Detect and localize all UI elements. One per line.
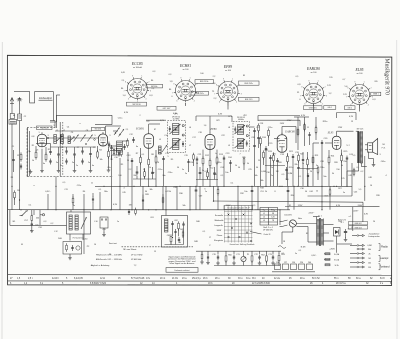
svg-text:11: 11 [307,127,309,129]
wire antenna down left [11,105,13,210]
power transformer top tick [313,217,320,219]
svg-text:460kHz: 460kHz [238,119,244,121]
svg-text:ECH81: ECH81 [135,127,145,130]
svg-text:a 1: a 1 [349,216,352,218]
svg-text:6,3V: 6,3V [173,113,178,115]
svg-text:6,3V: 6,3V [218,114,223,116]
svg-text:L2: L2 [63,130,65,132]
label box 5M 30/31 [92,127,105,130]
pot row bus [214,250,282,252]
value labels band2 [99,154,359,177]
voltage selector plugs [272,262,315,272]
terminal labels [367,233,390,269]
rectifier output wires [324,236,352,259]
tuner trimmer arrow 2 [81,135,86,142]
switch matrix header [227,207,249,210]
mid cluster labels [109,242,137,251]
svg-text:25: 25 [127,160,129,162]
svg-text:C58: C58 [38,227,41,229]
ECH81 second row parts [133,166,156,179]
svg-text:R1: R1 [11,177,13,179]
svg-text:C31: C31 [272,154,275,156]
svg-text:6,8: 6,8 [32,136,35,138]
tuner coil 1 [54,135,57,144]
svg-text:GSM 1: GSM 1 [373,94,379,96]
ECH81 component wires [132,124,164,186]
socket pin voltage labels ECH81 [169,81,174,98]
below transformer labels [359,171,387,197]
svg-text:220V~: 220V~ [353,211,359,213]
svg-text:Punkt 16: Punkt 16 [264,233,271,236]
svg-text:8: 8 [347,87,348,89]
svg-text:240: 240 [308,262,311,264]
left coupling grounds [30,229,34,233]
svg-text:2n: 2n [76,165,78,167]
svg-text:70: 70 [157,162,159,164]
bus line y206 right [285,206,380,208]
svg-text:Ferritantenne: Ferritantenne [73,236,84,239]
EABC80 tiny labels [268,151,300,175]
svg-text:78: 78 [272,220,274,222]
label above output transformer [357,129,363,131]
svg-text:7: 7 [346,96,347,98]
socket pin voltage labels EF89 [212,83,217,100]
svg-text:C59: C59 [102,229,105,231]
svg-text:BSD 29/1c: BSD 29/1c [195,93,204,95]
svg-text:87: 87 [154,129,156,131]
svg-text:R22: R22 [300,154,303,156]
measurement note box [166,268,198,273]
svg-text:L3: L3 [263,220,265,222]
svg-text:C14: C14 [164,135,167,137]
svg-text:Sp.: Sp. [263,210,266,212]
label EL95 circuit [327,131,334,134]
svg-text:10k: 10k [99,159,102,161]
svg-text:5k: 5k [169,191,171,193]
terminal arrows column [356,234,365,268]
svg-text:15: 15 [154,251,156,253]
svg-text:8,2x0,05: 8,2x0,05 [74,278,84,280]
svg-text:12: 12 [17,155,19,157]
svg-text:EF89: EF89 [223,65,232,69]
mixer trimmer arrow 2 [119,129,125,137]
schematic border frame [7,55,391,285]
svg-text:2n: 2n [72,162,74,164]
svg-text:0,2: 0,2 [361,171,364,173]
svg-text:33 o: 33 o [238,278,243,280]
socket pin voltage labels EABC80 [297,84,332,101]
svg-text:C44: C44 [309,191,312,193]
svg-text:C62: C62 [174,220,177,222]
svg-text:Drucktastenschalter 7S 27: Drucktastenschalter 7S 27 [227,207,249,210]
svg-text:Kurzwelle: Kurzwelle [215,214,223,217]
socket surround labels [121,71,377,83]
svg-text:6,3V: 6,3V [336,205,341,207]
svg-text:L5: L5 [159,139,161,141]
svg-text:34 e: 34 e [246,278,251,280]
svg-text:7: 7 [239,154,240,156]
svg-text:0,1: 0,1 [282,253,285,255]
junction dots on buses [20,186,334,211]
ferrite label [73,236,84,239]
left cluster labels [24,218,40,227]
svg-text:C45: C45 [122,192,125,194]
svg-text:L11: L11 [164,227,167,229]
ratio det extra parts [165,229,185,245]
svg-text:C11: C11 [64,189,67,191]
svg-text:5,5: 5,5 [353,155,356,157]
near-bus parts row [72,193,164,210]
svg-text:2k: 2k [265,191,267,193]
socket to circuit tiny texts [124,112,354,122]
svg-text:2k: 2k [369,253,371,255]
svg-text:100: 100 [200,73,203,75]
svg-text:R26: R26 [334,162,337,164]
speaker labels [382,144,386,150]
svg-text:1n: 1n [271,167,273,169]
filter cap label [348,229,353,231]
svg-text:26 b: 26 b [203,278,208,280]
svg-text:1k: 1k [149,167,151,169]
socket label box EABC80 below 2 [324,106,336,110]
svg-text:30k: 30k [368,249,371,251]
svg-text:64 8: 64 8 [380,278,385,280]
svg-text:12 kt: 12 kt [100,277,105,280]
lower-left grounds [68,256,72,260]
switch matrix header band [224,206,253,210]
svg-text:Wdg: Wdg [271,210,275,212]
lower-left box [63,242,82,255]
svg-text:0,3: 0,3 [147,121,150,123]
right mid tiny labels [260,123,357,194]
svg-text:7: 7 [172,92,173,94]
svg-text:an 100: an 100 [357,73,363,75]
tuner ground symbols [29,168,111,174]
svg-text:M1: M1 [13,221,16,223]
psu tiny labels [298,217,335,257]
power transformer winding hatch [317,220,323,245]
detector tiny labels [256,127,273,173]
svg-text:0,1: 0,1 [203,231,206,233]
svg-text:3: 3 [241,93,242,95]
pot row grounds [216,261,275,265]
IF2 coil lower [170,139,185,150]
svg-text:C25: C25 [248,169,251,171]
UKW tuner enclosure (dashed) [27,128,113,177]
svg-text:C36: C36 [300,188,303,190]
svg-text:R6: R6 [83,191,85,193]
svg-text:C73: C73 [268,254,271,256]
svg-text:C8: C8 [86,130,88,132]
tuner coil 3 [68,136,70,144]
svg-text:C64: C64 [338,221,341,223]
svg-text:110/220V: 110/220V [284,215,292,217]
svg-text:R14: R14 [228,157,231,159]
svg-text:Tonband: Tonband [380,265,390,269]
output transformer primary winding [358,132,360,164]
label EABC80 circuit [284,131,295,134]
svg-text:1: 1 [141,76,142,78]
svg-text:195: 195 [329,77,332,79]
svg-text:Phono: Phono [217,235,222,237]
svg-text:14: 14 [94,244,96,246]
svg-text:0,3M: 0,3M [288,173,293,175]
svg-text:BSD 29/3c: BSD 29/3c [244,83,253,85]
svg-text:0,1: 0,1 [231,183,234,185]
detector components [253,128,269,152]
svg-text:18 b: 18 b [208,283,213,285]
svg-text:C24: C24 [220,167,223,169]
components under bus [195,186,331,209]
svg-text:L1: L1 [56,130,58,132]
svg-text:EF89: EF89 [210,128,218,131]
svg-text:30n: 30n [162,175,165,177]
svg-text:30k: 30k [149,189,152,191]
EF89 lower components [196,156,225,168]
svg-text:5k: 5k [341,165,343,167]
svg-text:C20: C20 [173,187,176,189]
bus line y200 right [214,186,364,206]
svg-text:55 n: 55 n [334,278,339,280]
svg-text:ZF2: ZF2 [243,115,246,117]
volume potentiometer [241,256,246,261]
heater drop wires [34,192,100,225]
left coupling parts [31,210,33,229]
svg-text:L10: L10 [94,221,97,223]
rectifier [334,228,341,237]
coupling cap to EL95 [321,140,323,146]
socket label box ECC85 right [146,84,163,88]
svg-text:8: 8 [173,83,174,85]
pot row parts [217,253,280,263]
svg-text:Lautspr.: Lautspr. [380,256,389,260]
svg-text:8: 8 [125,81,126,83]
tuner resistor 4 [108,149,110,158]
svg-text:0,5: 0,5 [253,205,256,207]
speaker [365,139,378,155]
tuner small circles [47,137,95,145]
svg-text:R5: R5 [121,164,123,166]
svg-text:EL95: EL95 [327,131,334,134]
svg-text:Musikgerät 970: Musikgerät 970 [384,59,390,96]
grid-side parts [196,251,214,264]
label 110V [284,215,292,217]
socket label box EF89 right 2 [239,97,260,101]
svg-text:2n: 2n [56,162,58,164]
svg-text:SM 59/4c: SM 59/4c [151,86,158,88]
svg-text:L8: L8 [228,127,230,129]
svg-text:20: 20 [373,221,375,223]
svg-text:10n: 10n [225,172,228,174]
tuner resistor 1 [35,150,37,159]
coil table text [263,210,275,223]
measurement note paragraph [168,255,196,265]
svg-text:28 31 5 a: 28 31 5 a [336,283,346,285]
svg-text:0,1: 0,1 [357,167,360,169]
ferrite antenna box [67,212,91,234]
svg-text:36 t: 36 t [252,277,256,280]
svg-text:C26: C26 [251,137,254,139]
svg-text:UKW: UKW [217,230,222,232]
terminal feed wires [347,171,357,267]
svg-text:220V~: 220V~ [308,213,315,215]
svg-text:3: 3 [326,95,327,97]
svg-text:C17: C17 [192,137,195,139]
bottom area extra labels [21,205,322,255]
svg-text:ECC85: ECC85 [131,62,143,66]
svg-text:an 100: an 100 [225,70,231,72]
svg-text:1n: 1n [91,183,93,185]
ratio detector box [162,216,188,248]
svg-text:Klangtaste: Klangtaste [214,239,223,242]
svg-text:2n: 2n [60,165,62,167]
svg-text:GSt 2: GSt 2 [347,106,352,109]
svg-text:30: 30 [145,191,147,193]
svg-text:60 a: 60 a [356,278,361,280]
IF2 label above [172,117,180,121]
parts-list strip upper line [8,274,392,277]
svg-text:P 21: P 21 [382,147,386,149]
coil table box [260,208,278,226]
svg-text:R9: R9 [171,159,173,161]
svg-text:2n: 2n [271,175,273,177]
svg-text:0,2: 0,2 [51,223,54,225]
svg-text:C72: C72 [254,254,257,256]
IF stage link verticals [120,152,128,186]
svg-text:48 a: 48 a [300,278,305,280]
grid annotation [250,232,270,237]
svg-text:C1: C1 [12,146,14,148]
svg-text:8: 8 [301,86,302,88]
svg-text:205: 205 [374,81,377,83]
svg-text:85: 85 [243,75,245,77]
svg-text:100: 100 [118,175,121,177]
ratio det coil [165,219,168,232]
switch matrix crosses [228,214,252,242]
svg-text:10,7MHz: 10,7MHz [173,119,180,121]
EABC80 grid network [273,153,295,164]
EABC80 link wires [265,166,318,187]
svg-text:R30: R30 [179,193,182,195]
svg-text:BV 61/5: BV 61/5 [357,129,363,131]
svg-text:C70: C70 [212,254,215,256]
svg-text:5M 30/31: 5M 30/31 [95,129,102,131]
svg-text:57,5:22,5x28: 57,5:22,5x28 [131,278,145,280]
detector wires [250,127,269,186]
svg-text:EL95: EL95 [355,68,364,72]
svg-text:9: 9 [109,135,110,137]
svg-text:R50: R50 [228,255,231,257]
IF2 transformer box [168,121,186,153]
tube ECC85 triode b [99,132,108,146]
svg-text:9: 9 [53,125,54,127]
IF2 coil upper [169,124,181,135]
svg-text:2n: 2n [185,173,187,175]
tone cap network [302,152,309,186]
svg-text:L1: L1 [263,213,265,215]
svg-text:6,3V: 6,3V [113,204,118,206]
svg-text:1,6: 1,6 [204,125,207,127]
svg-text:C18: C18 [198,132,201,134]
push-button switch matrix [224,206,253,243]
svg-text:2: 2 [139,115,140,117]
svg-text:28 u: 28 u [215,278,220,280]
svg-text:20 nt: 20 nt [160,277,165,280]
svg-text:C6: C6 [71,132,73,134]
terminal group brackets [379,244,381,270]
bus line y186 [95,185,352,187]
svg-text:GST 04/7: GST 04/7 [163,108,171,110]
svg-text:C49: C49 [199,196,202,198]
left mid extra parts [12,150,15,205]
svg-text:0,5: 0,5 [63,182,66,184]
ferrite antenna coil 2 [75,215,78,230]
svg-text:0,3M: 0,3M [367,245,372,247]
svg-text:Abgleich s. Anleitung: Abgleich s. Anleitung [91,264,110,267]
svg-text:0,3: 0,3 [44,221,47,223]
tuner trimmer arrow 1 [74,135,79,142]
wire tuner output to IF1 [113,130,118,132]
FM antenna arrow 2 [17,98,22,105]
svg-text:38: 38 [272,213,274,215]
svg-text:Langwelle: Langwelle [214,225,223,227]
svg-text:4: 4 [123,188,124,190]
svg-text:GSM 04/2: GSM 04/2 [354,223,361,225]
svg-text:23 a: 23 a [182,278,187,280]
svg-text:0,5: 0,5 [296,76,299,78]
svg-text:17: 17 [209,237,211,239]
svg-text:4x10 h: 4x10 h [52,278,60,280]
svg-text:5n: 5n [182,169,184,171]
fuse rows [325,253,340,267]
svg-text:10n: 10n [244,191,247,193]
svg-text:S1: S1 [289,205,291,207]
svg-text:R20: R20 [278,162,281,164]
svg-text:500: 500 [285,179,288,181]
tube socket EF89 [214,65,241,106]
power transformer wires [296,224,333,243]
svg-text:1: 1 [232,79,233,81]
title Musikgeraet 970 vertical [384,59,390,96]
svg-text:50: 50 [305,191,307,193]
tube socket EABC80 [300,67,327,108]
wire antenna 2 down [19,105,21,210]
svg-text:125: 125 [341,178,344,180]
svg-text:R28: R28 [145,194,148,196]
ferrite antenna trimmer [81,217,87,229]
svg-text:0,1: 0,1 [99,189,102,191]
ratio det wires [166,210,184,245]
dipole wire with dip [14,92,54,103]
svg-text:C71: C71 [236,254,239,256]
left mid tiny labels [11,115,26,192]
svg-text:ZF 10,7 MHz: ZF 10,7 MHz [130,255,143,257]
svg-text:Gezeichnet: Stellung Rundfunk: Gezeichnet: Stellung Rundfunk [230,243,255,246]
svg-text:2,2: 2,2 [129,169,132,171]
svg-text:0,3: 0,3 [169,74,172,76]
bus stub parts [128,208,136,216]
lower-left labels [58,238,90,248]
svg-text:2,5 t: 2,5 t [28,277,33,280]
IF strip extra labels [126,114,343,149]
svg-text:1k: 1k [32,160,34,162]
svg-text:120: 120 [271,217,274,219]
svg-text:L12: L12 [54,231,57,233]
svg-text:260V: 260V [358,205,363,207]
svg-text:R24: R24 [331,156,334,158]
EL95 tiny labels [316,138,354,171]
coil table lines [260,208,278,226]
